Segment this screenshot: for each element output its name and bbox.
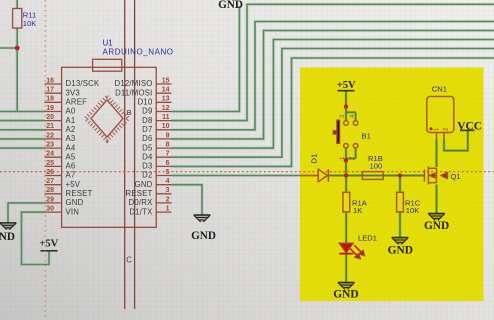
svg-text:D13/SCK: D13/SCK [66, 79, 101, 88]
svg-text:10K: 10K [406, 206, 420, 215]
svg-text:28: 28 [46, 187, 54, 194]
svg-text:A2: A2 [66, 125, 76, 134]
svg-text:3: 3 [339, 114, 346, 118]
svg-text:A6: A6 [66, 162, 76, 171]
svg-text:+5V: +5V [39, 238, 58, 249]
svg-text:B1: B1 [362, 132, 371, 141]
svg-text:D9: D9 [142, 107, 152, 116]
svg-text:16: 16 [46, 77, 54, 84]
svg-text:25: 25 [46, 160, 54, 167]
svg-text:18: 18 [46, 96, 54, 103]
svg-text:A3: A3 [66, 134, 76, 143]
svg-text:21: 21 [46, 123, 54, 130]
svg-text:GND: GND [66, 198, 84, 207]
svg-text:26: 26 [46, 169, 54, 176]
svg-text:13: 13 [162, 96, 170, 103]
svg-text:RESET: RESET [126, 189, 153, 198]
svg-text:D5: D5 [142, 143, 153, 152]
svg-text:17: 17 [46, 87, 54, 94]
svg-text:8: 8 [166, 141, 170, 148]
svg-text:D1: D1 [310, 154, 319, 164]
svg-text:23: 23 [46, 141, 54, 148]
svg-text:C: C [126, 255, 132, 264]
svg-text:VCC: VCC [457, 121, 482, 133]
svg-text:D3: D3 [142, 162, 152, 171]
svg-text:24: 24 [46, 151, 54, 158]
svg-text:D1/TX: D1/TX [129, 207, 153, 216]
svg-text:20: 20 [46, 114, 54, 121]
svg-text:12: 12 [162, 105, 170, 112]
svg-text:10K: 10K [23, 19, 37, 28]
svg-text:1: 1 [166, 206, 170, 213]
svg-text:D6: D6 [142, 134, 152, 143]
svg-text:6: 6 [166, 160, 170, 167]
svg-text:11: 11 [162, 114, 170, 121]
svg-text:GND: GND [333, 289, 358, 301]
svg-text:GND: GND [135, 180, 153, 189]
svg-text:100: 100 [370, 162, 383, 171]
svg-text:3: 3 [166, 187, 170, 194]
svg-text:+5V: +5V [66, 180, 81, 189]
svg-text:+5V: +5V [337, 80, 356, 91]
svg-text:GND: GND [191, 230, 216, 242]
svg-text:9: 9 [166, 132, 170, 139]
svg-text:D8: D8 [142, 116, 152, 125]
svg-text:7: 7 [166, 151, 170, 158]
svg-text:D4: D4 [142, 152, 153, 161]
svg-text:D7: D7 [142, 125, 152, 134]
svg-text:4: 4 [166, 178, 170, 185]
svg-text:D11/MOSI: D11/MOSI [115, 88, 152, 97]
svg-text:D10: D10 [138, 98, 153, 107]
svg-text:29: 29 [46, 196, 54, 203]
svg-text:A5: A5 [66, 152, 76, 161]
svg-text:10: 10 [162, 123, 170, 130]
svg-text:27: 27 [46, 178, 54, 185]
svg-text:RESET: RESET [66, 189, 93, 198]
svg-text:D0/RX: D0/RX [129, 198, 154, 207]
svg-text:22: 22 [46, 132, 54, 139]
svg-text:30: 30 [46, 206, 54, 213]
svg-text:CN1: CN1 [432, 85, 447, 94]
svg-text:1K: 1K [353, 206, 362, 215]
svg-text:A4: A4 [66, 143, 76, 152]
svg-text:GND: GND [218, 0, 243, 11]
svg-text:3V3: 3V3 [66, 88, 80, 97]
svg-text:U1: U1 [103, 39, 114, 48]
svg-text:B: B [127, 108, 132, 117]
svg-text:GND: GND [424, 220, 449, 232]
svg-text:19: 19 [46, 105, 54, 112]
svg-text:5: 5 [166, 169, 170, 176]
svg-text:A1: A1 [66, 116, 76, 125]
svg-text:VIN: VIN [66, 207, 80, 216]
svg-text:14: 14 [162, 87, 170, 94]
svg-text:GND: GND [0, 231, 15, 243]
svg-text:2: 2 [166, 196, 170, 203]
svg-text:ARDUINO_NANO: ARDUINO_NANO [103, 48, 174, 57]
svg-text:GND: GND [388, 245, 413, 257]
svg-text:A0: A0 [66, 107, 76, 116]
svg-text:LED1: LED1 [358, 234, 377, 243]
svg-text:D12/MISO: D12/MISO [115, 79, 153, 88]
svg-text:15: 15 [162, 77, 170, 84]
svg-text:2: 2 [349, 156, 356, 160]
svg-text:Q1: Q1 [451, 172, 461, 181]
svg-text:AREF: AREF [66, 98, 88, 107]
svg-text:4: 4 [349, 114, 356, 118]
